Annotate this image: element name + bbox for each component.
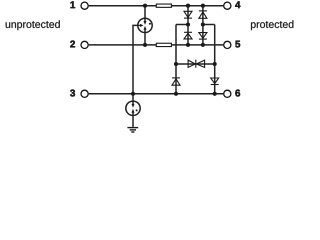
terminal 3 circle bbox=[81, 90, 88, 97]
node bus / branch B bbox=[201, 22, 205, 26]
wire bridge branch A vertical bbox=[187, 6, 189, 45]
gdt1 top electrode arrow bbox=[144, 21, 147, 25]
diode D4 bridge lower-right (anode to bus, cathode to line2) bbox=[199, 33, 207, 40]
wire gdt2 bottom lead to earth bbox=[132, 112, 134, 127]
node line1 / branch B bbox=[201, 4, 205, 8]
label unprotected bbox=[6, 20, 60, 30]
terminal 5 circle bbox=[224, 41, 231, 48]
wire gdt1 bottom lead bbox=[144, 30, 146, 45]
wire left outer vertical bbox=[175, 25, 177, 94]
diode D6 right to line3 (anode up, cathode to line3) bbox=[211, 78, 219, 85]
wire line 2 middle rail: terminal 2 to terminal 5 bbox=[89, 44, 224, 46]
wire mid bus right segment bbox=[203, 24, 215, 26]
diode D2 bridge upper-right (anode to bus, cathode to line1) bbox=[199, 11, 207, 18]
wire bridge branch B vertical bbox=[202, 6, 204, 45]
terminal 2 circle bbox=[81, 41, 88, 48]
wire line 1 top rail: terminal 1 to terminal 4 bbox=[89, 5, 224, 7]
node line3 / left vertical bbox=[174, 92, 178, 96]
diode D3 bridge lower-left (anode to line2, cathode to bus) bbox=[184, 32, 192, 39]
wire gdt1 third electrode down to line 3 bbox=[133, 25, 138, 93]
gdt2 top electrode arrow bbox=[132, 104, 135, 108]
node line2 / branch A bbox=[186, 43, 190, 47]
node line1 / gdt1 bbox=[143, 4, 147, 8]
earth ground symbol bbox=[127, 128, 138, 132]
label terminal 3 bbox=[70, 90, 75, 97]
resistor R2 bbox=[156, 43, 171, 46]
label terminal 6 bbox=[235, 90, 240, 97]
gdt1 bottom electrode arrow bbox=[144, 26, 147, 30]
label protected bbox=[251, 20, 293, 30]
tvs bidirectional suppressor diode bbox=[188, 60, 205, 68]
gdt1 left electrode arrow bbox=[138, 24, 140, 26]
node line2 / gdt1 bbox=[143, 43, 147, 47]
wire line 3 bottom rail: terminal 3 to terminal 6 bbox=[89, 93, 224, 95]
wire tvs row bbox=[176, 63, 215, 65]
gdt2 gas dot bbox=[136, 109, 138, 111]
diode D5 left to line3 (anode to line3, cathode up) bbox=[172, 78, 180, 85]
wire gdt2 top lead bbox=[132, 94, 134, 104]
gas discharge tube F1 (3-electrode) envelope bbox=[138, 18, 152, 32]
terminal 1 circle bbox=[81, 2, 88, 9]
gas discharge tube F2 (2-electrode) envelope bbox=[126, 101, 140, 115]
node bus / branch A bbox=[186, 22, 190, 26]
diode D1 bridge upper-left (anode to line1, cathode to bus) bbox=[184, 11, 192, 18]
gdt1 gas dot bbox=[149, 23, 151, 25]
label terminal 5 bbox=[235, 41, 240, 48]
node line2 / branch B bbox=[201, 43, 205, 47]
label terminal 4 bbox=[235, 1, 240, 8]
wire right outer vertical bbox=[214, 25, 216, 94]
terminal 6 circle bbox=[224, 90, 231, 97]
node tvs right bbox=[213, 62, 217, 66]
node line1 / branch A bbox=[186, 4, 190, 8]
wire gdt1 top lead bbox=[144, 6, 146, 22]
node tvs left bbox=[174, 62, 178, 66]
node line3 / right vertical bbox=[213, 92, 217, 96]
terminal 4 circle bbox=[224, 2, 231, 9]
resistor R1 bbox=[156, 4, 171, 7]
node line3 / gdt2 bbox=[131, 92, 135, 96]
gdt2 bottom electrode arrow bbox=[132, 109, 135, 113]
label terminal 1 bbox=[71, 1, 76, 8]
label terminal 2 bbox=[70, 41, 75, 48]
wire mid bus left segment bbox=[176, 24, 188, 26]
